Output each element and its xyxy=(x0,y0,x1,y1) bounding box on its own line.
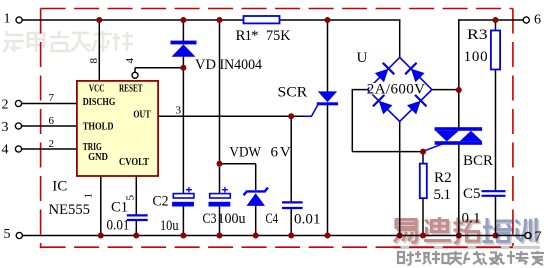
svg-text:R2: R2 xyxy=(434,170,452,186)
triac BCR right triangle xyxy=(460,131,482,141)
wire: SCR cathode to bottom rail xyxy=(327,105,329,236)
node: bridge right corner / BCR riser xyxy=(456,87,462,93)
resistor R2 body xyxy=(420,164,427,199)
triac BCR left triangle xyxy=(436,131,459,142)
svg-text:5: 5 xyxy=(4,227,11,242)
wire: bridge left corner drop xyxy=(351,89,353,152)
tagline glyph 计 xyxy=(500,251,516,264)
faint watermark glyph 5 xyxy=(92,31,112,52)
wire: diode VD anode to junction xyxy=(182,56,184,68)
wire: CVOLT pin 5 to capacitor C1 xyxy=(135,176,137,215)
node: bottom rail / VDW xyxy=(253,233,259,239)
wire: bridge right corner to BCR riser xyxy=(432,89,459,91)
tagline glyph 和 xyxy=(432,251,449,264)
RESET pin 4 bubble xyxy=(132,72,138,78)
svg-text:C4: C4 xyxy=(266,211,279,227)
wire: RESET bubble riser xyxy=(134,68,136,72)
svg-text:R1*: R1* xyxy=(236,28,259,44)
capacitor C3 plus sign xyxy=(222,187,228,193)
svg-text:GND: GND xyxy=(88,152,108,163)
svg-text:4: 4 xyxy=(124,58,136,64)
capacitor C2 plus sign xyxy=(186,187,192,193)
bridge rectifier U diamond outline xyxy=(368,57,432,121)
dashed enclosure left side xyxy=(40,9,42,249)
SCR cathode bar xyxy=(317,102,338,105)
wire: zener VDW top lead xyxy=(255,164,257,190)
diode VD triangle xyxy=(172,44,196,56)
bridge value text background xyxy=(370,83,425,95)
node: bottom rail / bridge bottom xyxy=(397,233,403,239)
dashed enclosure bottom side xyxy=(41,246,513,248)
faint watermark glyph 4 xyxy=(71,33,91,51)
svg-text:C2: C2 xyxy=(153,194,169,210)
tagline glyph 设 xyxy=(482,253,500,265)
node: top rail / VCC xyxy=(96,17,102,23)
node: VDW tap xyxy=(217,161,223,167)
watermark underline bar xyxy=(393,246,540,249)
svg-text:6: 6 xyxy=(534,13,541,28)
tagline glyph 射 xyxy=(398,252,414,265)
svg-text:10u: 10u xyxy=(160,218,179,234)
wire: RESET junction horizontal run xyxy=(135,67,183,69)
wire: terminal 3 stub to THOLD pin 6 xyxy=(22,125,77,127)
wire: R3 top lead from top rail xyxy=(495,20,497,31)
tagline glyph 专 xyxy=(516,251,529,265)
wire: bridge right corner riser to top rail xyxy=(458,19,460,90)
svg-text:C5: C5 xyxy=(463,186,481,202)
svg-text:C3: C3 xyxy=(203,211,217,227)
wire: capacitor C2 to bottom rail xyxy=(182,207,184,236)
svg-text:3: 3 xyxy=(2,120,9,135)
svg-text:0.01: 0.01 xyxy=(107,217,130,233)
zener VDW cathode bar with bent tips xyxy=(244,188,268,196)
node: OUT wire / C4 xyxy=(288,113,294,119)
svg-text:4: 4 xyxy=(2,143,9,158)
logo shadow 拓 xyxy=(455,219,481,244)
svg-text:6: 6 xyxy=(49,115,55,127)
node: top rail / SCR / R1 right xyxy=(325,17,331,23)
capacitor C2 negative plate xyxy=(172,202,194,207)
SCR gate lead xyxy=(304,105,318,116)
wire: zener VDW bottom lead to bottom rail xyxy=(255,206,257,236)
svg-text:R3: R3 xyxy=(467,27,488,43)
bridge diode top-right (arrow to top corner) xyxy=(405,63,425,83)
terminal 3 xyxy=(15,123,21,129)
diode VD cathode bar xyxy=(171,41,197,45)
capacitor C2 positive plate (hollow) xyxy=(173,194,194,198)
wire: bottom rail (terminal 5 to terminal 7) xyxy=(23,235,525,237)
triac BCR bottom bar xyxy=(435,141,483,145)
terminal 5 xyxy=(16,232,22,238)
logo shadow 迪 xyxy=(426,219,453,243)
op-amp/timer IC U1 NE555 body xyxy=(77,81,158,176)
wire: capacitor C5 to bottom rail xyxy=(495,196,497,235)
logo character 易 xyxy=(394,220,417,243)
wire: top rail left segment (terminal 1 to R1 left lead) xyxy=(22,19,243,21)
wire: capacitor C3 to bottom rail xyxy=(219,207,221,236)
terminal 7 xyxy=(525,232,531,238)
logo character 拓 xyxy=(454,218,480,243)
bridge diode bottom-left (arrow to left corner) xyxy=(373,95,393,115)
node: bottom rail / R2 xyxy=(420,233,426,239)
resistor R3 body xyxy=(491,31,500,70)
svg-text:1: 1 xyxy=(4,12,11,27)
wire: terminal 4 stub to TRIG pin 2 xyxy=(22,148,77,150)
triac BCR gate lead xyxy=(424,143,447,152)
capacitor C1 plates xyxy=(127,215,148,220)
wire: capacitor C1 to bottom rail xyxy=(135,221,137,236)
svg-text:RESET: RESET xyxy=(119,83,143,94)
tagline glyph 家 xyxy=(531,251,544,265)
node: bottom rail / C5 xyxy=(493,233,499,239)
tagline glyph 线 xyxy=(464,251,483,265)
wire: capacitor C4 bottom lead xyxy=(290,209,292,236)
logo shadow 培 xyxy=(484,220,514,244)
bridge diode bottom-right (arrow to right corner) xyxy=(407,95,427,115)
svg-text:VCC: VCC xyxy=(89,83,105,94)
wire: GND pin 1 to bottom rail xyxy=(100,176,102,236)
terminal 2 xyxy=(15,100,21,106)
resistor R1 body xyxy=(244,16,280,23)
node: gate bus / R2 / BCR gate xyxy=(420,149,426,155)
wire: top rail right segment to terminal 6 xyxy=(458,19,523,21)
svg-text:THOLD: THOLD xyxy=(83,122,114,133)
wire: bridge bottom corner to bottom rail xyxy=(399,122,401,236)
logo shadow 训 xyxy=(517,220,538,244)
svg-text:U: U xyxy=(357,50,368,66)
node: bottom rail / GND xyxy=(98,233,104,239)
svg-text:VD: VD xyxy=(195,57,216,73)
svg-text:0.01: 0.01 xyxy=(294,212,321,228)
svg-text:100: 100 xyxy=(464,49,488,65)
svg-text:2: 2 xyxy=(2,98,9,113)
svg-text:3: 3 xyxy=(176,105,182,117)
node: bottom rail / SCR xyxy=(325,233,331,239)
wire: drop from top rail corner to bridge top corner xyxy=(399,19,401,57)
svg-text:OUT: OUT xyxy=(133,109,150,120)
node: bottom rail / C2 xyxy=(180,233,186,239)
capacitor C5 plates xyxy=(482,191,506,196)
svg-text:NE555: NE555 xyxy=(49,202,91,218)
tagline glyph 天 xyxy=(449,251,462,265)
svg-text:6V: 6V xyxy=(271,145,291,161)
wire: VD junction down to capacitor C2 xyxy=(182,68,184,194)
svg-text:2A/600V: 2A/600V xyxy=(367,82,425,98)
svg-text:1: 1 xyxy=(83,193,95,199)
svg-text:DISCHG: DISCHG xyxy=(83,97,116,108)
dashed enclosure top side xyxy=(41,8,513,10)
terminal 6 xyxy=(523,17,529,23)
capacitor C4 plates xyxy=(282,202,303,208)
wire: VDW node horizontal to zener top xyxy=(220,163,256,165)
faint watermark glyph 1 xyxy=(3,31,24,52)
faint watermark glyph 6 xyxy=(113,32,133,51)
faint watermark glyph 2 xyxy=(28,32,44,52)
svg-text:IN4004: IN4004 xyxy=(220,57,263,73)
node: bottom rail / C4 xyxy=(288,233,294,239)
svg-text:7: 7 xyxy=(49,92,55,104)
logo character 培 xyxy=(483,218,513,242)
wire: VCC pin 8 drop from top rail xyxy=(98,20,100,81)
wire: BCR main terminal 2 lead xyxy=(458,90,460,128)
capacitor C3 positive plate (hollow) xyxy=(210,194,231,198)
wire: BCR main terminal 1 lead to bottom rail xyxy=(458,144,460,236)
dashed enclosure right side xyxy=(512,9,514,249)
svg-text:5.1: 5.1 xyxy=(434,187,452,203)
svg-text:100u: 100u xyxy=(218,211,246,227)
wire: capacitor C4 top lead xyxy=(290,116,292,201)
logo character 迪 xyxy=(424,217,451,241)
wire: terminal 2 stub to DISCHG pin 7 xyxy=(22,103,77,105)
wire: bridge left corner run xyxy=(352,89,367,91)
capacitor C3 negative plate xyxy=(209,202,231,207)
node: top rail / R3 xyxy=(493,17,499,23)
SCR anode triangle xyxy=(318,91,337,102)
svg-text:SCR: SCR xyxy=(278,85,308,101)
node: bottom rail / BCR xyxy=(456,233,462,239)
node: top rail / VD cathode xyxy=(180,17,186,23)
svg-text:BCR: BCR xyxy=(463,153,493,169)
terminal 1 xyxy=(16,17,22,23)
node: VD anode / RESET / C2 xyxy=(180,65,186,71)
wire: R2 bottom lead to bottom rail xyxy=(422,198,424,236)
svg-text:C1: C1 xyxy=(111,199,128,215)
wire: top rail drop to VDW node xyxy=(219,20,221,194)
triac BCR top bar xyxy=(435,127,483,131)
terminal 4 xyxy=(15,146,21,152)
svg-text:IC: IC xyxy=(52,179,67,195)
node: top rail / VDW branch / R1 left xyxy=(217,17,223,23)
zener VDW triangle xyxy=(247,193,266,206)
tagline glyph 频 xyxy=(415,251,431,264)
svg-text:CVOLT: CVOLT xyxy=(119,157,149,168)
wire: R3 bottom lead to capacitor C5 xyxy=(495,69,497,190)
svg-text:75K: 75K xyxy=(266,28,291,44)
wire: SCR anode drop from top rail xyxy=(327,20,329,92)
node: bottom rail / C1 xyxy=(133,233,139,239)
wire: R2 top lead xyxy=(422,152,424,164)
node: bottom rail / C3 xyxy=(217,233,223,239)
wire: OUT pin 3 run to SCR gate xyxy=(158,115,304,117)
logo character 训 xyxy=(516,218,537,242)
svg-text:8: 8 xyxy=(88,58,100,64)
svg-text:VDW: VDW xyxy=(229,145,261,161)
logo shadow 易 xyxy=(396,221,419,244)
wire: gate bus to R2/BCR junction xyxy=(352,151,423,153)
faint watermark glyph 3 xyxy=(50,31,70,51)
bridge diode top-left (arrow to top corner) xyxy=(375,63,395,83)
svg-text:2: 2 xyxy=(49,138,55,150)
wire: top rail right of R1 to corner above bridge xyxy=(280,19,401,21)
wire: top rail to diode VD cathode xyxy=(182,20,184,41)
